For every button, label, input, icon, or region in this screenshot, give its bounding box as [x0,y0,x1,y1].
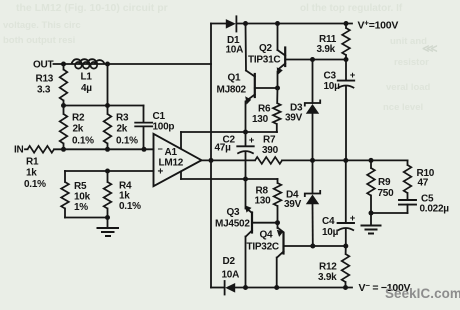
ground symbol right [362,213,381,234]
svg-text:C1: C1 [153,111,166,122]
svg-text:Q3: Q3 [227,207,241,218]
svg-text:R1: R1 [26,157,39,168]
wire V- rail right segment [235,287,352,289]
svg-text:+: + [249,135,255,146]
svg-text:R6: R6 [258,104,271,115]
svg-text:voltage. This circ: voltage. This circ [3,20,81,31]
svg-text:2k: 2k [117,124,128,135]
node junction R12 bottom on V- rail [343,285,348,290]
svg-text:0.1%: 0.1% [116,136,138,147]
svg-text:0.022µ: 0.022µ [420,204,450,215]
svg-text:TIP32C: TIP32C [247,242,279,253]
zener diode D3 39V [285,60,320,161]
node junction R1/R2 bottom [61,147,66,152]
node junction R3 bottom on inverting wire [105,147,110,152]
svg-text:resistor: resistor [394,57,429,68]
node junction D3 top on Q2 base wire [310,57,315,62]
svg-text:R9: R9 [378,177,391,188]
svg-text:1%: 1% [74,202,88,213]
wire mid rail y=105.5 R13/R2 to C1 [64,105,144,107]
wire L1 right node down to mid rail [107,64,109,106]
resistor R11 3.9k [317,24,350,60]
svg-text:−: − [158,144,163,154]
resistor R6 130 [252,88,281,132]
node junction D3/D4 on output rail [310,158,315,163]
node junction R13 bottom / R2 top [61,103,66,108]
svg-text:D2: D2 [223,256,236,267]
svg-text:3.9k: 3.9k [317,44,336,55]
resistor R1 1k 0.1% [24,146,54,190]
svg-text:1k: 1k [119,191,130,202]
svg-text:130: 130 [252,114,269,125]
node junction Q4 collector on V- rail [274,285,279,290]
transistor Q1 MJ802 [217,24,278,133]
svg-text:C3: C3 [324,71,337,82]
svg-text:MJ802: MJ802 [217,85,247,96]
svg-text:+: + [158,167,164,178]
node junction R9 top on output rail [369,158,374,163]
node junction Q2 collector on V+ rail [275,21,280,26]
svg-text:+: + [350,213,356,224]
wire OUT to output column at y=64 [54,63,212,65]
svg-text:R3: R3 [116,113,129,124]
capacitor C4 10u [322,160,356,246]
svg-text:both output resi: both output resi [3,35,75,46]
capacitor C1 100p [135,106,174,150]
svg-text:39V: 39V [284,199,302,210]
svg-text:MJ4502: MJ4502 [215,219,250,230]
transistor Q2 TIP31C [248,24,313,89]
svg-text:Q2: Q2 [259,43,273,54]
svg-text:SeekIC.com: SeekIC.com [385,286,460,301]
resistor R2 2k 0.1% [60,106,94,150]
transistor Q4 TIP32C [247,223,313,288]
svg-text:the LM12 (Fig. 10-10) circuit: the LM12 (Fig. 10-10) circuit pr [16,2,168,14]
node junction C4 bottom / R12 top [343,244,348,249]
node junction C2 bottom / Q3 emitter [243,177,248,182]
svg-text:ol the top regulator. If: ol the top regulator. If [300,3,403,14]
resistor R3 2k 0.1% [104,106,138,150]
resistor R5 10k 1% [61,171,90,218]
svg-text:OUT: OUT [33,60,54,71]
svg-text:0.1%: 0.1% [24,179,46,190]
node junction C2 top / Q1 emitter [243,130,248,135]
node OUT junction R13/L1 [61,62,66,67]
resistor R7 390 [255,135,282,164]
resistor R10 47 [404,160,435,199]
svg-text:veral load: veral load [386,82,431,93]
svg-text:Q1: Q1 [228,73,242,84]
svg-text:3.9k: 3.9k [318,272,337,283]
svg-text:100p: 100p [153,122,175,133]
node junction op-amp output on output column [209,158,214,163]
node junction Q1 base / Q2 emitter / R6 [275,86,280,91]
svg-text:47: 47 [418,178,429,189]
wire op-amp V+ supply rail to R6 [181,131,277,133]
svg-text:IN: IN [14,145,24,156]
wire op-amp V+ supply pin stub [180,132,182,149]
svg-text:4µ: 4µ [81,83,92,94]
wire non-inverting input y=171 [65,170,154,172]
node L1 right junction [105,62,110,67]
diode D2 10A [222,256,240,295]
svg-text:10k: 10k [74,192,91,203]
zener diode D4 39V [284,160,320,246]
svg-text:130: 130 [255,196,272,207]
resistor R9 750 [367,160,394,213]
wire C5/R9 bottom rail [371,212,408,214]
page background faint print-through text [3,2,438,113]
inductor L1 4u [72,59,105,94]
svg-text:R5: R5 [74,181,87,192]
svg-text:R2: R2 [72,113,85,124]
node junction R4 top [105,169,110,174]
wire Q4 base to C4/R12 [313,245,346,247]
svg-text:R12: R12 [319,262,337,273]
node junction C1 bottom on inverting wire [142,147,147,152]
svg-text:A1: A1 [165,147,178,158]
resistor R4 1k 0.1% [104,171,141,218]
svg-text:10µ: 10µ [324,81,341,92]
node junction Q3 base / R8 / Q4 emitter [275,220,280,225]
svg-text:47µ: 47µ [215,143,232,154]
svg-text:750: 750 [378,188,395,199]
wire boosted output rail y=160.4 [282,159,408,161]
svg-text:+: + [350,70,356,81]
svg-text:390: 390 [262,145,279,156]
node junction ground R9/C5 [369,211,374,216]
capacitor C3 10u [324,60,356,161]
transistor Q3 MJ4502 [215,179,278,288]
node junction D1 cathode / Q1 collector [243,21,248,26]
svg-text:0.1%: 0.1% [72,136,94,147]
svg-text:1k: 1k [26,168,37,179]
node junction R4 bottom ground [105,215,110,220]
svg-text:C4: C4 [322,216,335,227]
wire output column x=211 from V+ rail to V- rail [210,24,212,288]
node junction Q3 collector on V- rail [243,285,248,290]
diode D1 10A [226,16,244,55]
svg-text:10µ: 10µ [322,227,339,238]
resistor R13 3.3 [36,64,68,106]
resistor R12 3.9k [318,246,349,288]
node junction L1 / R3 top [105,103,110,108]
wire inverting input y=149.3 [54,148,154,150]
wire op-amp V- supply rail to R8 [181,178,278,180]
wire op-amp V- supply pin stub [180,172,182,180]
svg-text:39V: 39V [285,113,303,124]
node junction R11 top on V+ rail [344,21,349,26]
wire op-amp output to R7 [201,159,255,161]
svg-text:⋘: ⋘ [422,43,438,55]
svg-text:10A: 10A [226,45,244,56]
resistor R8 130 [255,179,282,223]
svg-text:0.1%: 0.1% [119,201,141,212]
wire V+ rail right segment [236,23,352,25]
wire Q2 base to R11/C3 [313,59,347,61]
svg-text:nce level: nce level [383,102,423,113]
svg-text:R13: R13 [36,74,54,85]
node junction C3/C4 on output rail [343,158,348,163]
svg-text:V+=100V: V+=100V [358,19,399,32]
svg-text:Q4: Q4 [260,230,274,241]
svg-text:L1: L1 [81,72,93,83]
node junction R11 bottom / C3 top [344,57,349,62]
svg-text:3.3: 3.3 [37,85,51,96]
wire V+ rail left segment [211,23,226,25]
svg-text:TIP31C: TIP31C [248,55,280,66]
svg-text:10A: 10A [222,270,240,281]
capacitor C2 47u [215,132,255,179]
svg-text:R7: R7 [263,135,276,146]
node junction D4 bottom on Q4 base wire [310,244,315,249]
capacitor C5 0.022u [399,194,449,215]
svg-text:2k: 2k [73,124,84,135]
ground symbol below R4 [98,218,119,237]
wire ground rail R5 to R4 [65,217,108,219]
wire V- rail left segment [211,287,224,289]
op-amp A1 LM12 [154,134,202,186]
